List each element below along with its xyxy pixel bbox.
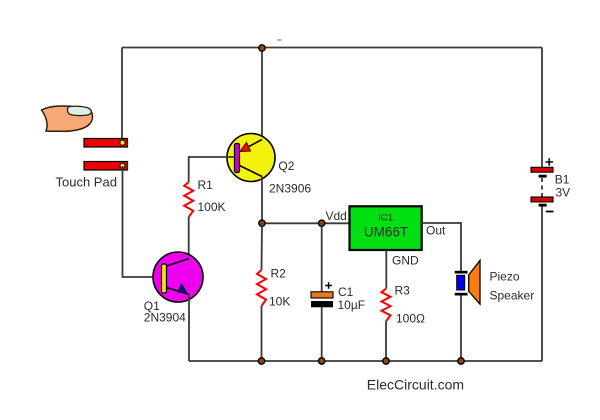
resistor R2 [257, 270, 266, 306]
wire Q2 base / R1 [189, 157, 235, 182]
svg-text:R3: R3 [395, 284, 411, 298]
svg-text:Q2: Q2 [278, 159, 294, 173]
piezo speaker [455, 260, 480, 304]
wire pad to Q1 base [123, 166, 162, 277]
wire speaker bottom [460, 296, 462, 362]
svg-text:C1: C1 [338, 285, 354, 299]
svg-text:2N3906: 2N3906 [269, 182, 311, 196]
IC U1 UM66T [350, 206, 422, 250]
junction Q2 collector / R2 / Vdd [259, 220, 265, 226]
resistor R1 [184, 182, 193, 217]
wire Q1 emitter down [188, 295, 190, 362]
wire R3 bottom [385, 321, 387, 361]
wire right rail upper [541, 48, 543, 168]
svg-text:10µF: 10µF [338, 298, 366, 312]
wire R1 to Q1 collector [188, 217, 190, 259]
wire right rail lower [541, 207, 543, 362]
wire IC out to speaker [422, 223, 461, 271]
junction bottom speaker [458, 358, 464, 364]
svg-text:2N3904: 2N3904 [144, 311, 186, 325]
junction bottom R2 [258, 358, 264, 364]
svg-text:GND: GND [392, 254, 419, 268]
stray dash mark [278, 39, 282, 41]
junction C1 tap [319, 220, 325, 226]
svg-text:ElecCircuit.com: ElecCircuit.com [367, 377, 464, 393]
wire bottom rail [189, 360, 542, 362]
svg-text:B1: B1 [555, 173, 570, 187]
wire Vdd rail [262, 222, 350, 224]
svg-text:IC1: IC1 [378, 213, 393, 224]
svg-text:100K: 100K [198, 200, 226, 214]
touch pad lower plate [84, 162, 128, 171]
junction bottom R3 [383, 358, 389, 364]
svg-text:Touch Pad: Touch Pad [56, 175, 117, 190]
svg-text:UM66T: UM66T [364, 225, 408, 240]
capacitor C1 [311, 282, 333, 307]
resistor R3 [382, 289, 391, 322]
transistor Q2 [227, 134, 275, 182]
finger [42, 106, 93, 131]
wire IC gnd to R3 [385, 250, 387, 289]
touch pad upper plate [84, 139, 128, 148]
wire left rail [121, 48, 123, 142]
svg-text:Out: Out [426, 224, 446, 238]
wire top rail [122, 47, 542, 49]
wire C1 top [321, 223, 323, 291]
svg-text:100Ω: 100Ω [396, 312, 425, 326]
svg-text:Vdd: Vdd [326, 209, 347, 223]
transistor Q1 [153, 252, 203, 302]
svg-text:3V: 3V [556, 186, 571, 200]
wire Q2 collector down [261, 177, 263, 224]
wire Q2 emitter to top rail [261, 48, 263, 140]
battery B1 [531, 158, 554, 211]
wire C1 bottom [321, 307, 323, 361]
junction top rail [259, 45, 265, 51]
svg-text:R1: R1 [198, 178, 214, 192]
wire R2 bottom [261, 306, 263, 361]
svg-text:Speaker: Speaker [490, 289, 535, 303]
svg-text:10K: 10K [269, 295, 290, 309]
junction bottom C1 [319, 358, 325, 364]
svg-text:Piezo: Piezo [490, 270, 520, 284]
svg-text:R2: R2 [271, 267, 287, 281]
wire R2 top [261, 223, 264, 270]
